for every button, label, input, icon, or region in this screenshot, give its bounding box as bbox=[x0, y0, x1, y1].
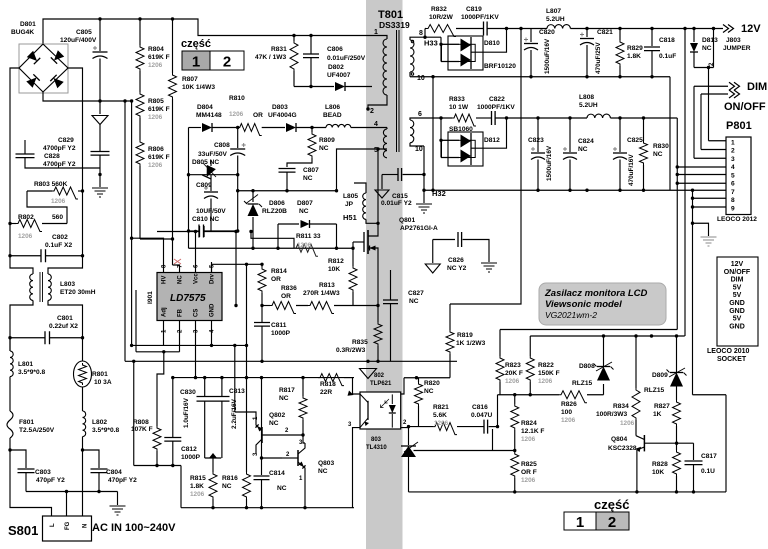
svg-text:0.01uF Y2: 0.01uF Y2 bbox=[381, 200, 412, 207]
svg-text:6: 6 bbox=[731, 181, 735, 188]
svg-text:D804: D804 bbox=[197, 104, 213, 111]
svg-text:C812: C812 bbox=[181, 446, 197, 453]
svg-text:2.2uF/16V: 2.2uF/16V bbox=[231, 398, 238, 429]
svg-text:C805: C805 bbox=[76, 29, 92, 36]
svg-text:L806: L806 bbox=[325, 104, 340, 111]
svg-text:1.0uF/16V: 1.0uF/16V bbox=[183, 397, 190, 428]
svg-text:C804: C804 bbox=[106, 469, 122, 476]
svg-text:C813: C813 bbox=[229, 388, 245, 395]
svg-text:C801: C801 bbox=[57, 315, 73, 322]
svg-text:R828: R828 bbox=[652, 461, 668, 468]
svg-text:H51: H51 bbox=[343, 213, 357, 222]
svg-text:R830: R830 bbox=[653, 143, 669, 150]
svg-text:Zasilacz monitora LCD: Zasilacz monitora LCD bbox=[544, 288, 648, 299]
svg-text:802: 802 bbox=[374, 373, 385, 379]
svg-text:803: 803 bbox=[371, 437, 382, 443]
svg-text:część: część bbox=[594, 497, 629, 512]
svg-text:FB: FB bbox=[178, 308, 184, 317]
svg-text:L807: L807 bbox=[546, 8, 561, 15]
svg-text:H33: H33 bbox=[424, 39, 438, 48]
svg-text:C816: C816 bbox=[472, 404, 488, 411]
svg-text:R811 33: R811 33 bbox=[296, 233, 321, 240]
svg-text:MM4148: MM4148 bbox=[196, 112, 222, 119]
svg-text:470pF Y2: 470pF Y2 bbox=[108, 477, 137, 484]
svg-text:R810: R810 bbox=[229, 95, 245, 102]
svg-text:10UF/50V: 10UF/50V bbox=[196, 208, 226, 215]
svg-text:6: 6 bbox=[418, 111, 422, 118]
svg-text:1.8K: 1.8K bbox=[190, 483, 204, 490]
svg-text:1K: 1K bbox=[653, 411, 662, 418]
svg-text:R816: R816 bbox=[222, 475, 238, 482]
svg-text:L803: L803 bbox=[60, 281, 75, 288]
svg-text:NC: NC bbox=[653, 151, 663, 158]
svg-text:R809: R809 bbox=[319, 137, 335, 144]
svg-text:12V: 12V bbox=[741, 23, 761, 35]
svg-text:AC IN 100~240V: AC IN 100~240V bbox=[92, 522, 176, 534]
svg-text:9: 9 bbox=[731, 205, 735, 212]
svg-text:D802: D802 bbox=[328, 64, 344, 71]
svg-text:R805: R805 bbox=[148, 98, 164, 105]
svg-text:R825: R825 bbox=[521, 461, 537, 468]
svg-text:1206: 1206 bbox=[297, 242, 312, 249]
svg-text:C809: C809 bbox=[196, 182, 212, 189]
svg-text:C807: C807 bbox=[303, 167, 319, 174]
svg-text:5V: 5V bbox=[733, 316, 742, 323]
svg-text:NC: NC bbox=[277, 485, 287, 492]
svg-text:150K F: 150K F bbox=[538, 370, 560, 377]
svg-text:Adj: Adj bbox=[162, 307, 168, 317]
svg-text:270R 1/4W3: 270R 1/4W3 bbox=[303, 290, 340, 297]
svg-text:5.6K: 5.6K bbox=[433, 412, 447, 419]
svg-text:0.22uf X2: 0.22uf X2 bbox=[49, 323, 78, 330]
svg-text:619K F: 619K F bbox=[148, 106, 170, 113]
svg-text:2: 2 bbox=[731, 148, 735, 155]
svg-text:1206: 1206 bbox=[148, 162, 163, 169]
svg-text:1206: 1206 bbox=[521, 477, 536, 484]
svg-text:Viewsonic model: Viewsonic model bbox=[545, 299, 622, 310]
svg-text:1206: 1206 bbox=[561, 417, 576, 424]
svg-text:5: 5 bbox=[731, 172, 735, 179]
svg-text:R824: R824 bbox=[521, 420, 537, 427]
svg-text:0.01uF/250V: 0.01uF/250V bbox=[327, 55, 366, 62]
svg-text:I901: I901 bbox=[147, 291, 154, 304]
svg-text:C821: C821 bbox=[597, 29, 613, 36]
svg-text:R829: R829 bbox=[627, 45, 643, 52]
svg-text:47K / 1W3: 47K / 1W3 bbox=[255, 54, 286, 61]
svg-text:S801: S801 bbox=[8, 523, 38, 538]
svg-text:R818: R818 bbox=[320, 381, 336, 388]
svg-text:R826: R826 bbox=[561, 401, 577, 408]
svg-text:560: 560 bbox=[52, 214, 63, 221]
svg-text:R819: R819 bbox=[457, 332, 473, 339]
svg-text:1000PF/1KV: 1000PF/1KV bbox=[477, 104, 515, 111]
svg-text:1206: 1206 bbox=[148, 62, 163, 69]
svg-text:12V: 12V bbox=[731, 261, 744, 268]
svg-text:L805: L805 bbox=[343, 193, 358, 200]
svg-text:Q803: Q803 bbox=[318, 460, 334, 467]
svg-text:NC: NC bbox=[578, 146, 588, 153]
svg-text:L808: L808 bbox=[579, 94, 594, 101]
svg-text:DS3319: DS3319 bbox=[379, 20, 410, 30]
svg-text:Drv: Drv bbox=[210, 273, 216, 284]
svg-text:BRF10120: BRF10120 bbox=[484, 63, 516, 70]
svg-text:470pF Y2: 470pF Y2 bbox=[36, 477, 65, 484]
svg-text:1: 1 bbox=[731, 139, 735, 146]
svg-text:1206: 1206 bbox=[190, 491, 205, 498]
svg-text:C806: C806 bbox=[327, 46, 343, 53]
svg-text:D808: D808 bbox=[579, 363, 595, 370]
svg-text:0.1U: 0.1U bbox=[701, 468, 715, 475]
svg-text:0.047U: 0.047U bbox=[471, 412, 493, 419]
svg-text:R803 560K: R803 560K bbox=[34, 181, 68, 188]
svg-text:H32: H32 bbox=[432, 189, 446, 198]
svg-text:D803: D803 bbox=[272, 104, 288, 111]
svg-text:R814: R814 bbox=[271, 268, 287, 275]
svg-text:R823: R823 bbox=[505, 362, 521, 369]
svg-text:P801: P801 bbox=[726, 120, 752, 132]
svg-text:0.1uF X2: 0.1uF X2 bbox=[45, 242, 72, 249]
svg-text:1206: 1206 bbox=[620, 420, 635, 427]
svg-text:C819: C819 bbox=[466, 6, 482, 13]
svg-text:Vcc: Vcc bbox=[194, 273, 200, 284]
svg-text:C824: C824 bbox=[578, 138, 594, 145]
svg-text:470uF/16V: 470uF/16V bbox=[628, 154, 635, 186]
svg-text:1206: 1206 bbox=[18, 233, 33, 240]
svg-text:NC: NC bbox=[318, 468, 328, 475]
svg-text:C827: C827 bbox=[408, 290, 424, 297]
svg-text:D806: D806 bbox=[269, 200, 285, 207]
svg-text:C811: C811 bbox=[271, 322, 287, 329]
svg-text:10: 10 bbox=[415, 146, 423, 153]
svg-text:FG: FG bbox=[65, 521, 71, 530]
svg-text:NC: NC bbox=[222, 483, 232, 490]
svg-text:SOCKET: SOCKET bbox=[717, 356, 747, 363]
svg-text:R820: R820 bbox=[424, 380, 440, 387]
svg-text:Q804: Q804 bbox=[611, 436, 627, 443]
svg-text:10K: 10K bbox=[652, 469, 664, 476]
svg-text:C802: C802 bbox=[52, 234, 68, 241]
svg-text:619K F: 619K F bbox=[148, 54, 170, 61]
svg-text:GND: GND bbox=[729, 323, 745, 330]
svg-text:R808: R808 bbox=[133, 419, 149, 426]
svg-text:8: 8 bbox=[731, 197, 735, 204]
svg-text:AP2761GI-A: AP2761GI-A bbox=[400, 225, 438, 232]
svg-text:0.3R/2W3: 0.3R/2W3 bbox=[336, 347, 366, 354]
svg-text:R834: R834 bbox=[613, 403, 629, 410]
svg-text:JP: JP bbox=[345, 201, 354, 208]
svg-text:DIM: DIM bbox=[731, 277, 744, 284]
svg-text:C825: C825 bbox=[627, 137, 643, 144]
svg-text:33uF/50V: 33uF/50V bbox=[198, 151, 228, 158]
svg-text:1206: 1206 bbox=[229, 111, 244, 118]
svg-text:JUMPER: JUMPER bbox=[723, 45, 751, 52]
svg-text:10R/2W: 10R/2W bbox=[429, 14, 454, 21]
svg-text:4700pF Y2: 4700pF Y2 bbox=[43, 145, 76, 152]
svg-text:619K F: 619K F bbox=[148, 154, 170, 161]
svg-text:NC: NC bbox=[702, 45, 712, 52]
svg-text:C820: C820 bbox=[539, 29, 555, 36]
svg-text:NC: NC bbox=[303, 175, 313, 182]
svg-text:ON/OFF: ON/OFF bbox=[724, 269, 751, 276]
svg-text:NC: NC bbox=[178, 275, 184, 284]
svg-text:N: N bbox=[83, 524, 89, 528]
svg-text:L: L bbox=[50, 523, 56, 527]
svg-text:UF4004G: UF4004G bbox=[268, 112, 297, 119]
svg-text:C822: C822 bbox=[489, 96, 505, 103]
svg-text:C814: C814 bbox=[269, 470, 285, 477]
svg-text:R827: R827 bbox=[654, 403, 670, 410]
svg-text:4: 4 bbox=[374, 121, 378, 128]
svg-text:NC: NC bbox=[409, 298, 419, 305]
svg-text:10K 1/4W3: 10K 1/4W3 bbox=[182, 84, 215, 91]
svg-text:100R/3W3: 100R/3W3 bbox=[596, 411, 627, 418]
svg-text:CS: CS bbox=[194, 309, 200, 317]
svg-text:OR: OR bbox=[281, 293, 291, 300]
svg-text:GND: GND bbox=[729, 300, 745, 307]
svg-text:5V: 5V bbox=[733, 284, 742, 291]
svg-text:R821: R821 bbox=[433, 404, 449, 411]
svg-text:100: 100 bbox=[561, 409, 572, 416]
svg-text:10K: 10K bbox=[328, 266, 340, 273]
svg-text:1206: 1206 bbox=[521, 436, 536, 443]
svg-text:LEOCO 2010: LEOCO 2010 bbox=[707, 348, 750, 355]
svg-text:D801: D801 bbox=[20, 21, 36, 28]
svg-text:C823: C823 bbox=[528, 137, 544, 144]
svg-text:3: 3 bbox=[731, 156, 735, 163]
svg-text:1206: 1206 bbox=[538, 378, 553, 385]
svg-text:L802: L802 bbox=[92, 419, 107, 426]
svg-text:OR: OR bbox=[253, 112, 263, 119]
svg-text:10: 10 bbox=[417, 75, 425, 82]
svg-text:C803: C803 bbox=[35, 469, 51, 476]
svg-text:KSC2328: KSC2328 bbox=[608, 445, 637, 452]
svg-text:R831: R831 bbox=[271, 46, 287, 53]
svg-text:BUG4K: BUG4K bbox=[11, 29, 34, 36]
svg-text:R835: R835 bbox=[352, 339, 368, 346]
svg-text:D812: D812 bbox=[484, 137, 500, 144]
svg-text:1.8K: 1.8K bbox=[627, 53, 641, 60]
svg-text:ON/OFF: ON/OFF bbox=[724, 101, 766, 113]
svg-text:RLZ20B: RLZ20B bbox=[262, 208, 287, 215]
svg-text:TL4310: TL4310 bbox=[366, 445, 387, 451]
svg-text:1206: 1206 bbox=[148, 114, 163, 121]
svg-text:1206: 1206 bbox=[505, 378, 520, 385]
svg-text:5V: 5V bbox=[733, 292, 742, 299]
svg-text:C829: C829 bbox=[58, 137, 74, 144]
svg-text:0.1uF: 0.1uF bbox=[659, 53, 676, 60]
svg-text:C815: C815 bbox=[392, 193, 408, 200]
svg-text:R817: R817 bbox=[279, 387, 295, 394]
svg-text:8: 8 bbox=[419, 30, 423, 37]
svg-text:NC: NC bbox=[424, 388, 434, 395]
svg-text:RLZ15: RLZ15 bbox=[644, 387, 664, 394]
svg-text:3.5*9*0.8: 3.5*9*0.8 bbox=[18, 369, 45, 376]
svg-text:NC: NC bbox=[299, 208, 309, 215]
svg-text:NC: NC bbox=[279, 395, 289, 402]
svg-text:GND: GND bbox=[210, 303, 216, 317]
svg-text:TLP621: TLP621 bbox=[370, 381, 392, 387]
svg-text:C810 NC: C810 NC bbox=[192, 216, 219, 223]
svg-text:10 1W: 10 1W bbox=[449, 104, 469, 111]
svg-text:D807: D807 bbox=[297, 200, 313, 207]
svg-text:5.2UH: 5.2UH bbox=[579, 102, 598, 109]
svg-text:RLZ15: RLZ15 bbox=[572, 380, 592, 387]
svg-text:OR: OR bbox=[271, 276, 281, 283]
svg-text:Q801: Q801 bbox=[399, 217, 415, 224]
svg-text:L801: L801 bbox=[18, 361, 33, 368]
svg-text:1: 1 bbox=[192, 54, 200, 71]
svg-text:4: 4 bbox=[731, 164, 735, 171]
svg-text:120uF/400V: 120uF/400V bbox=[60, 37, 97, 44]
svg-text:GND: GND bbox=[729, 308, 745, 315]
svg-text:NC: NC bbox=[319, 145, 329, 152]
svg-text:1000P: 1000P bbox=[181, 454, 201, 461]
svg-text:5: 5 bbox=[374, 147, 378, 154]
svg-text:NC: NC bbox=[269, 420, 279, 427]
svg-text:470uF/25V: 470uF/25V bbox=[595, 42, 602, 74]
svg-text:BEAD: BEAD bbox=[323, 112, 342, 119]
svg-text:HV: HV bbox=[162, 276, 168, 284]
svg-text:1500uF/16V: 1500uF/16V bbox=[544, 38, 551, 74]
svg-text:107K F: 107K F bbox=[131, 426, 153, 433]
svg-text:część: część bbox=[181, 38, 211, 50]
svg-text:R801: R801 bbox=[92, 371, 108, 378]
svg-text:NC Y2: NC Y2 bbox=[447, 265, 467, 272]
svg-text:R833: R833 bbox=[449, 96, 465, 103]
svg-text:T2.5A/250V: T2.5A/250V bbox=[19, 427, 55, 434]
svg-text:LD7575: LD7575 bbox=[170, 293, 206, 304]
svg-text:SB1060: SB1060 bbox=[449, 126, 473, 133]
svg-text:C808: C808 bbox=[214, 142, 230, 149]
svg-text:1000PF/1KV: 1000PF/1KV bbox=[461, 14, 499, 21]
svg-text:1206: 1206 bbox=[51, 198, 66, 205]
svg-text:R832: R832 bbox=[431, 6, 447, 13]
svg-text:DIM: DIM bbox=[747, 81, 767, 93]
svg-text:C830: C830 bbox=[180, 389, 196, 396]
svg-text:R822: R822 bbox=[538, 362, 554, 369]
svg-text:R806: R806 bbox=[148, 146, 164, 153]
svg-text:1: 1 bbox=[576, 514, 584, 531]
svg-text:2: 2 bbox=[608, 514, 616, 531]
svg-text:10 3A: 10 3A bbox=[94, 379, 112, 386]
svg-text:2: 2 bbox=[223, 54, 231, 71]
svg-text:R812: R812 bbox=[328, 258, 344, 265]
svg-text:5.2UH: 5.2UH bbox=[546, 16, 565, 23]
svg-text:22R: 22R bbox=[320, 389, 332, 396]
svg-text:J803: J803 bbox=[726, 37, 741, 44]
svg-text:20K F: 20K F bbox=[505, 370, 523, 377]
svg-text:1: 1 bbox=[374, 29, 378, 36]
svg-text:1K 1/2W3: 1K 1/2W3 bbox=[456, 340, 486, 347]
svg-text:D805 NC: D805 NC bbox=[192, 159, 219, 166]
svg-text:LEOCO 2012: LEOCO 2012 bbox=[717, 216, 757, 223]
svg-text:R807: R807 bbox=[182, 76, 198, 83]
svg-text:R815: R815 bbox=[190, 475, 206, 482]
svg-text:D810: D810 bbox=[484, 40, 500, 47]
svg-text:1000P: 1000P bbox=[271, 330, 291, 337]
svg-text:12.1K F: 12.1K F bbox=[521, 428, 544, 435]
svg-text:7: 7 bbox=[731, 189, 735, 196]
svg-text:F801: F801 bbox=[19, 419, 34, 426]
svg-text:3.5*9*0.8: 3.5*9*0.8 bbox=[92, 427, 119, 434]
svg-text:C828: C828 bbox=[44, 153, 60, 160]
svg-text:R836: R836 bbox=[281, 285, 297, 292]
svg-text:4700pF Y2: 4700pF Y2 bbox=[43, 161, 76, 168]
svg-text:1500uF/16V: 1500uF/16V bbox=[546, 145, 553, 181]
svg-text:R813: R813 bbox=[319, 282, 335, 289]
svg-text:VG2021wm-2: VG2021wm-2 bbox=[545, 310, 597, 320]
svg-text:C818: C818 bbox=[659, 37, 675, 44]
svg-text:C826: C826 bbox=[448, 257, 464, 264]
svg-text:1206: 1206 bbox=[434, 420, 449, 427]
svg-text:C817: C817 bbox=[701, 453, 717, 460]
svg-text:2: 2 bbox=[370, 108, 374, 115]
svg-text:D813: D813 bbox=[702, 37, 718, 44]
svg-text:Q802: Q802 bbox=[269, 412, 285, 419]
svg-text:R804: R804 bbox=[148, 46, 164, 53]
svg-text:UF4007: UF4007 bbox=[327, 72, 351, 79]
svg-text:R802: R802 bbox=[18, 214, 34, 221]
svg-text:ET20 30mH: ET20 30mH bbox=[60, 289, 96, 296]
svg-text:OR F: OR F bbox=[521, 469, 537, 476]
svg-text:D809: D809 bbox=[652, 372, 668, 379]
